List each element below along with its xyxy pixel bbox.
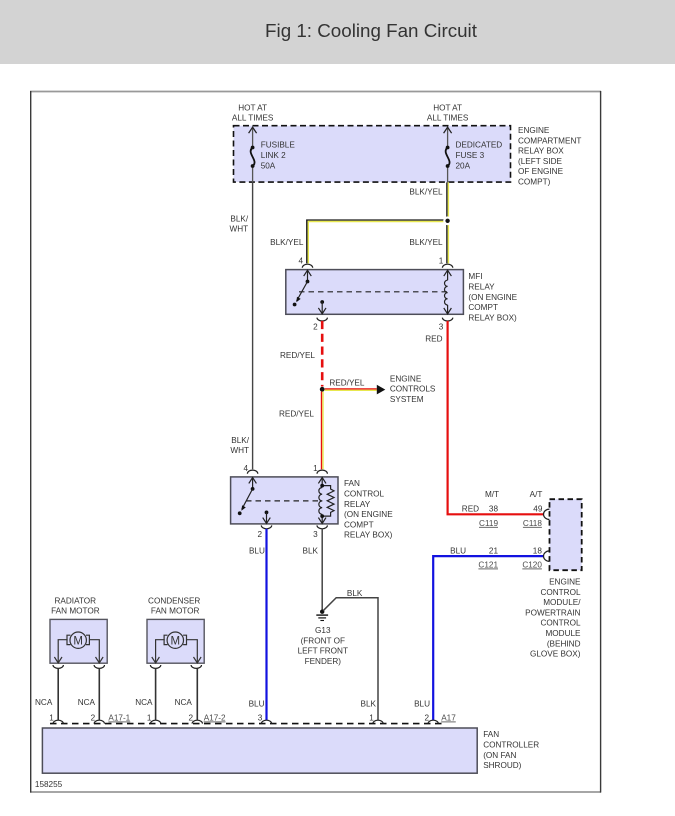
fan controller pin 3 (A17) terminal arc	[261, 720, 271, 723]
svg-text:1: 1	[313, 464, 318, 473]
radiator fan motor box	[50, 619, 107, 663]
svg-text:2: 2	[91, 714, 96, 723]
svg-text:Fig 1: Cooling Fan Circuit: Fig 1: Cooling Fan Circuit	[265, 20, 478, 41]
ECM blue wire terminal arc	[544, 551, 550, 561]
radiator motor pin 1 terminal arc	[53, 665, 63, 668]
svg-text:20A: 20A	[456, 161, 471, 170]
svg-text:2: 2	[313, 323, 318, 332]
wire BLK/WHT : fusible link 2 to fan control relay pin 4	[252, 182, 254, 469]
svg-text:2: 2	[189, 714, 194, 723]
svg-text:NCA: NCA	[35, 698, 53, 707]
fan controller pin 2 (A17-1) terminal arc	[94, 720, 104, 723]
relay K1 box	[286, 270, 464, 315]
wire RED/YEL (dashed) : MFI pin 2 to junction	[321, 321, 324, 387]
fan relay pin 3 terminal arc	[317, 525, 327, 528]
svg-text:SHROUD): SHROUD)	[483, 761, 521, 770]
fan controller label	[483, 730, 539, 770]
off-page arrow to engine controls system	[377, 385, 386, 395]
svg-text:MFI: MFI	[468, 272, 482, 281]
wire NCA : radiator motor pin 2 to fan controller	[98, 668, 100, 720]
svg-text:BLU: BLU	[249, 699, 265, 708]
fan relay pin 4 terminal arc	[247, 470, 257, 474]
svg-text:RELAY: RELAY	[468, 283, 495, 292]
svg-text:A17-1: A17-1	[108, 714, 130, 723]
svg-text:M/T: M/T	[485, 490, 499, 499]
fusible link 2 (50A)	[249, 127, 257, 182]
engine compartment relay box label	[518, 126, 581, 187]
wire NCA : condenser motor pin 2 to fan controller	[196, 668, 198, 720]
wire NCA : radiator motor pin 1 to fan controller	[57, 668, 59, 720]
svg-text:WHT: WHT	[230, 225, 249, 234]
svg-text:COMPT: COMPT	[344, 520, 374, 529]
dedicated fuse 3 value label	[456, 141, 503, 171]
svg-text:FENDER): FENDER)	[305, 657, 342, 666]
ECM box (dashed)	[550, 499, 582, 570]
svg-text:C120: C120	[522, 561, 542, 570]
svg-text:3: 3	[258, 714, 263, 723]
fusible link 2 value label	[261, 141, 296, 171]
svg-text:BLK/: BLK/	[230, 215, 248, 224]
svg-text:1: 1	[147, 714, 152, 723]
svg-text:1: 1	[369, 714, 374, 723]
condenser motor pin 2 terminal arc	[191, 665, 201, 668]
MFI pin 3 terminal arc	[442, 318, 452, 321]
MFI pin 2 terminal arc	[317, 318, 327, 321]
fan relay switch pivot node	[251, 487, 255, 491]
fan relay coil bottom node	[320, 514, 324, 518]
fan relay switch fixed contact	[238, 511, 242, 515]
svg-text:(FRONT OF: (FRONT OF	[301, 636, 345, 645]
svg-text:1: 1	[439, 257, 444, 266]
MFI switch fixed contact	[293, 303, 297, 307]
svg-text:CONDENSER: CONDENSER	[148, 597, 200, 606]
svg-text:GLOVE BOX): GLOVE BOX)	[530, 650, 581, 659]
svg-text:ALL TIMES: ALL TIMES	[232, 114, 274, 123]
svg-text:ENGINE: ENGINE	[549, 578, 581, 587]
svg-text:COMPT): COMPT)	[518, 178, 551, 187]
title bar	[0, 0, 675, 64]
wire BLU : fan relay pin 2 to fan controller pin 3	[265, 529, 267, 720]
condenser fan motor box	[147, 619, 204, 663]
radiator motor pin 2 terminal arc	[94, 665, 104, 668]
ground G13	[316, 610, 328, 621]
ground G13 label	[298, 626, 348, 666]
svg-text:COMPT: COMPT	[468, 303, 498, 312]
fan relay pin 1 terminal arc	[317, 470, 327, 474]
svg-text:RED: RED	[425, 334, 442, 343]
power feed label HOT AT ALL TIMES (right)	[427, 104, 469, 123]
junction on BLK/YEL	[443, 216, 452, 225]
fan controller connector dashed line	[50, 723, 442, 725]
MFI relay coil	[444, 270, 452, 314]
node label ENGINE CONTROLS SYSTEM	[390, 374, 436, 404]
wire BLK : fan relay pin 3 to ground G13	[321, 529, 323, 610]
svg-text:MODULE: MODULE	[545, 629, 581, 638]
fan control relay box	[231, 477, 338, 524]
fan relay switch entry arrow	[249, 478, 257, 489]
svg-text:(ON ENGINE: (ON ENGINE	[344, 510, 393, 519]
svg-text:LINK 2: LINK 2	[261, 151, 286, 160]
svg-text:18: 18	[533, 546, 543, 555]
fan relay pin 2 contact stub	[265, 511, 269, 515]
wire label BLK/WHT (upper)	[230, 215, 249, 234]
fan controller box	[42, 728, 477, 773]
svg-text:NCA: NCA	[135, 698, 153, 707]
svg-text:(ON ENGINE: (ON ENGINE	[468, 293, 517, 302]
svg-text:HOT AT: HOT AT	[433, 104, 462, 113]
svg-text:(LEFT SIDE: (LEFT SIDE	[518, 157, 563, 166]
svg-text:BLK/YEL: BLK/YEL	[409, 188, 443, 197]
svg-text:CONTROL: CONTROL	[540, 619, 580, 628]
svg-text:FAN: FAN	[483, 730, 499, 739]
fan relay switch arm	[242, 489, 253, 510]
svg-text:RELAY: RELAY	[344, 500, 371, 509]
svg-text:MODULE/: MODULE/	[543, 598, 581, 607]
wire label BLK/WHT (lower)	[230, 436, 249, 455]
svg-text:A17: A17	[441, 714, 456, 723]
MFI relay actuation dashed link	[299, 291, 448, 293]
svg-text:(ON FAN: (ON FAN	[483, 751, 516, 760]
svg-text:3: 3	[439, 323, 444, 332]
svg-text:ENGINE: ENGINE	[518, 126, 550, 135]
fan relay coil	[318, 478, 326, 524]
fan control relay label	[344, 479, 393, 540]
MFI relay label	[468, 272, 517, 322]
svg-text:(BEHIND: (BEHIND	[547, 639, 581, 648]
svg-text:SYSTEM: SYSTEM	[390, 395, 424, 404]
svg-text:RED/YEL: RED/YEL	[280, 351, 315, 360]
MFI switch arm entry arrow	[304, 270, 312, 281]
svg-text:CONTROL: CONTROL	[344, 490, 384, 499]
junction node on RED/YEL	[320, 387, 325, 392]
svg-text:FUSE 3: FUSE 3	[456, 151, 485, 160]
svg-text:3: 3	[313, 530, 318, 539]
svg-text:2: 2	[258, 530, 263, 539]
svg-text:4: 4	[298, 257, 303, 266]
wire NCA : condenser motor pin 1 to fan controller	[155, 668, 157, 720]
svg-text:FUSIBLE: FUSIBLE	[261, 141, 296, 150]
svg-text:POWERTRAIN: POWERTRAIN	[525, 608, 580, 617]
svg-text:FAN MOTOR: FAN MOTOR	[151, 606, 200, 615]
fan relay pin 2 terminal arc	[261, 525, 271, 528]
svg-text:NCA: NCA	[175, 698, 193, 707]
svg-text:1: 1	[49, 714, 54, 723]
svg-text:CONTROL: CONTROL	[540, 588, 580, 597]
svg-text:COMPARTMENT: COMPARTMENT	[518, 136, 581, 145]
MFI pin 2 contact stub	[320, 300, 324, 304]
svg-text:50A: 50A	[261, 161, 276, 170]
svg-text:C118: C118	[523, 519, 542, 528]
engine compartment relay box (dashed)	[234, 126, 511, 182]
svg-text:HOT AT: HOT AT	[238, 104, 267, 113]
ECM red wire terminal arc	[544, 509, 550, 519]
wire BLK/YEL : dedicated fuse 3 down to MFI relay pin 1	[447, 182, 449, 263]
fan controller pin 1 (A17-1) terminal arc	[53, 720, 63, 723]
svg-text:DEDICATED: DEDICATED	[456, 141, 503, 150]
power feed label HOT AT ALL TIMES (left)	[232, 104, 274, 123]
svg-text:BLU: BLU	[450, 546, 466, 555]
fan relay actuation dashed link	[246, 500, 322, 502]
svg-text:ALL TIMES: ALL TIMES	[427, 114, 469, 123]
condenser fan motor M2 symbol	[152, 632, 201, 663]
MFI pin 1 terminal arc	[442, 264, 452, 268]
fan controller pin 2 (A17) terminal arc	[428, 720, 438, 723]
svg-text:BLU: BLU	[249, 546, 265, 555]
ECM label	[525, 578, 581, 659]
svg-text:RELAY BOX: RELAY BOX	[518, 147, 564, 156]
svg-text:NCA: NCA	[78, 698, 96, 707]
svg-text:OF ENGINE: OF ENGINE	[518, 167, 564, 176]
wire RED/YEL : junction to fan control relay pin 1	[322, 392, 324, 470]
svg-text:FAN: FAN	[344, 479, 360, 488]
svg-text:FAN MOTOR: FAN MOTOR	[51, 606, 100, 615]
condenser motor pin 1 terminal arc	[150, 665, 160, 668]
svg-text:49: 49	[533, 504, 543, 513]
svg-text:A17-2: A17-2	[204, 714, 226, 723]
svg-text:BLK/YEL: BLK/YEL	[270, 238, 304, 247]
svg-text:C119: C119	[479, 519, 498, 528]
radiator fan motor M1 symbol	[54, 632, 103, 663]
svg-text:CONTROLLER: CONTROLLER	[483, 741, 539, 750]
svg-text:BLK: BLK	[361, 699, 377, 708]
dedicated fuse 3 (20A)	[444, 127, 452, 182]
fan controller pin 2 (A17-2) terminal arc	[192, 720, 202, 723]
svg-text:BLK/YEL: BLK/YEL	[409, 238, 443, 247]
svg-text:21: 21	[489, 546, 499, 555]
svg-text:ENGINE: ENGINE	[390, 374, 422, 383]
svg-text:RADIATOR: RADIATOR	[55, 597, 97, 606]
svg-text:RED: RED	[462, 504, 479, 513]
svg-text:LEFT FRONT: LEFT FRONT	[298, 647, 348, 656]
svg-text:BLK/: BLK/	[231, 436, 249, 445]
svg-text:RELAY BOX): RELAY BOX)	[468, 313, 517, 322]
radiator fan motor label	[51, 597, 100, 616]
wire BLK/YEL : branch to MFI relay pin 4	[307, 220, 448, 263]
wire RED/YEL : branch to engine controls system	[325, 389, 377, 390]
svg-text:WHT: WHT	[230, 446, 249, 455]
svg-text:M: M	[171, 635, 181, 647]
svg-text:RED/YEL: RED/YEL	[279, 409, 314, 418]
fan relay coil shunt resistor	[322, 486, 334, 516]
svg-text:A/T: A/T	[530, 490, 543, 499]
svg-text:BLU: BLU	[414, 699, 430, 708]
wire BLU : ECM pin 21/18 to fan controller pin 2	[433, 556, 544, 720]
svg-text:BLK: BLK	[303, 546, 319, 555]
svg-text:RELAY BOX): RELAY BOX)	[344, 531, 393, 540]
svg-text:C121: C121	[478, 561, 498, 570]
MFI switch arm	[297, 282, 308, 301]
MFI switch pivot node	[306, 280, 310, 284]
fan controller pin 1 (A17) terminal arc	[373, 720, 383, 723]
svg-text:38: 38	[489, 504, 499, 513]
svg-text:G13: G13	[315, 626, 331, 635]
fan controller pin 1 (A17-2) terminal arc	[150, 720, 160, 723]
svg-text:2: 2	[424, 714, 429, 723]
MFI pin 4 terminal arc	[302, 264, 312, 268]
svg-text:4: 4	[243, 464, 248, 473]
svg-text:RED/YEL: RED/YEL	[329, 379, 364, 388]
svg-text:158255: 158255	[35, 780, 63, 789]
condenser fan motor label	[148, 597, 200, 616]
wire RED : MFI pin 3 to ECM pin 38/49	[448, 321, 544, 514]
svg-text:BLK: BLK	[347, 589, 363, 598]
wire BLK : ground branch to fan controller pin 1	[323, 598, 378, 720]
svg-text:CONTROLS: CONTROLS	[390, 385, 436, 394]
diagram frame	[30, 91, 601, 793]
fan relay coil top node	[320, 484, 324, 488]
svg-text:M: M	[73, 635, 83, 647]
